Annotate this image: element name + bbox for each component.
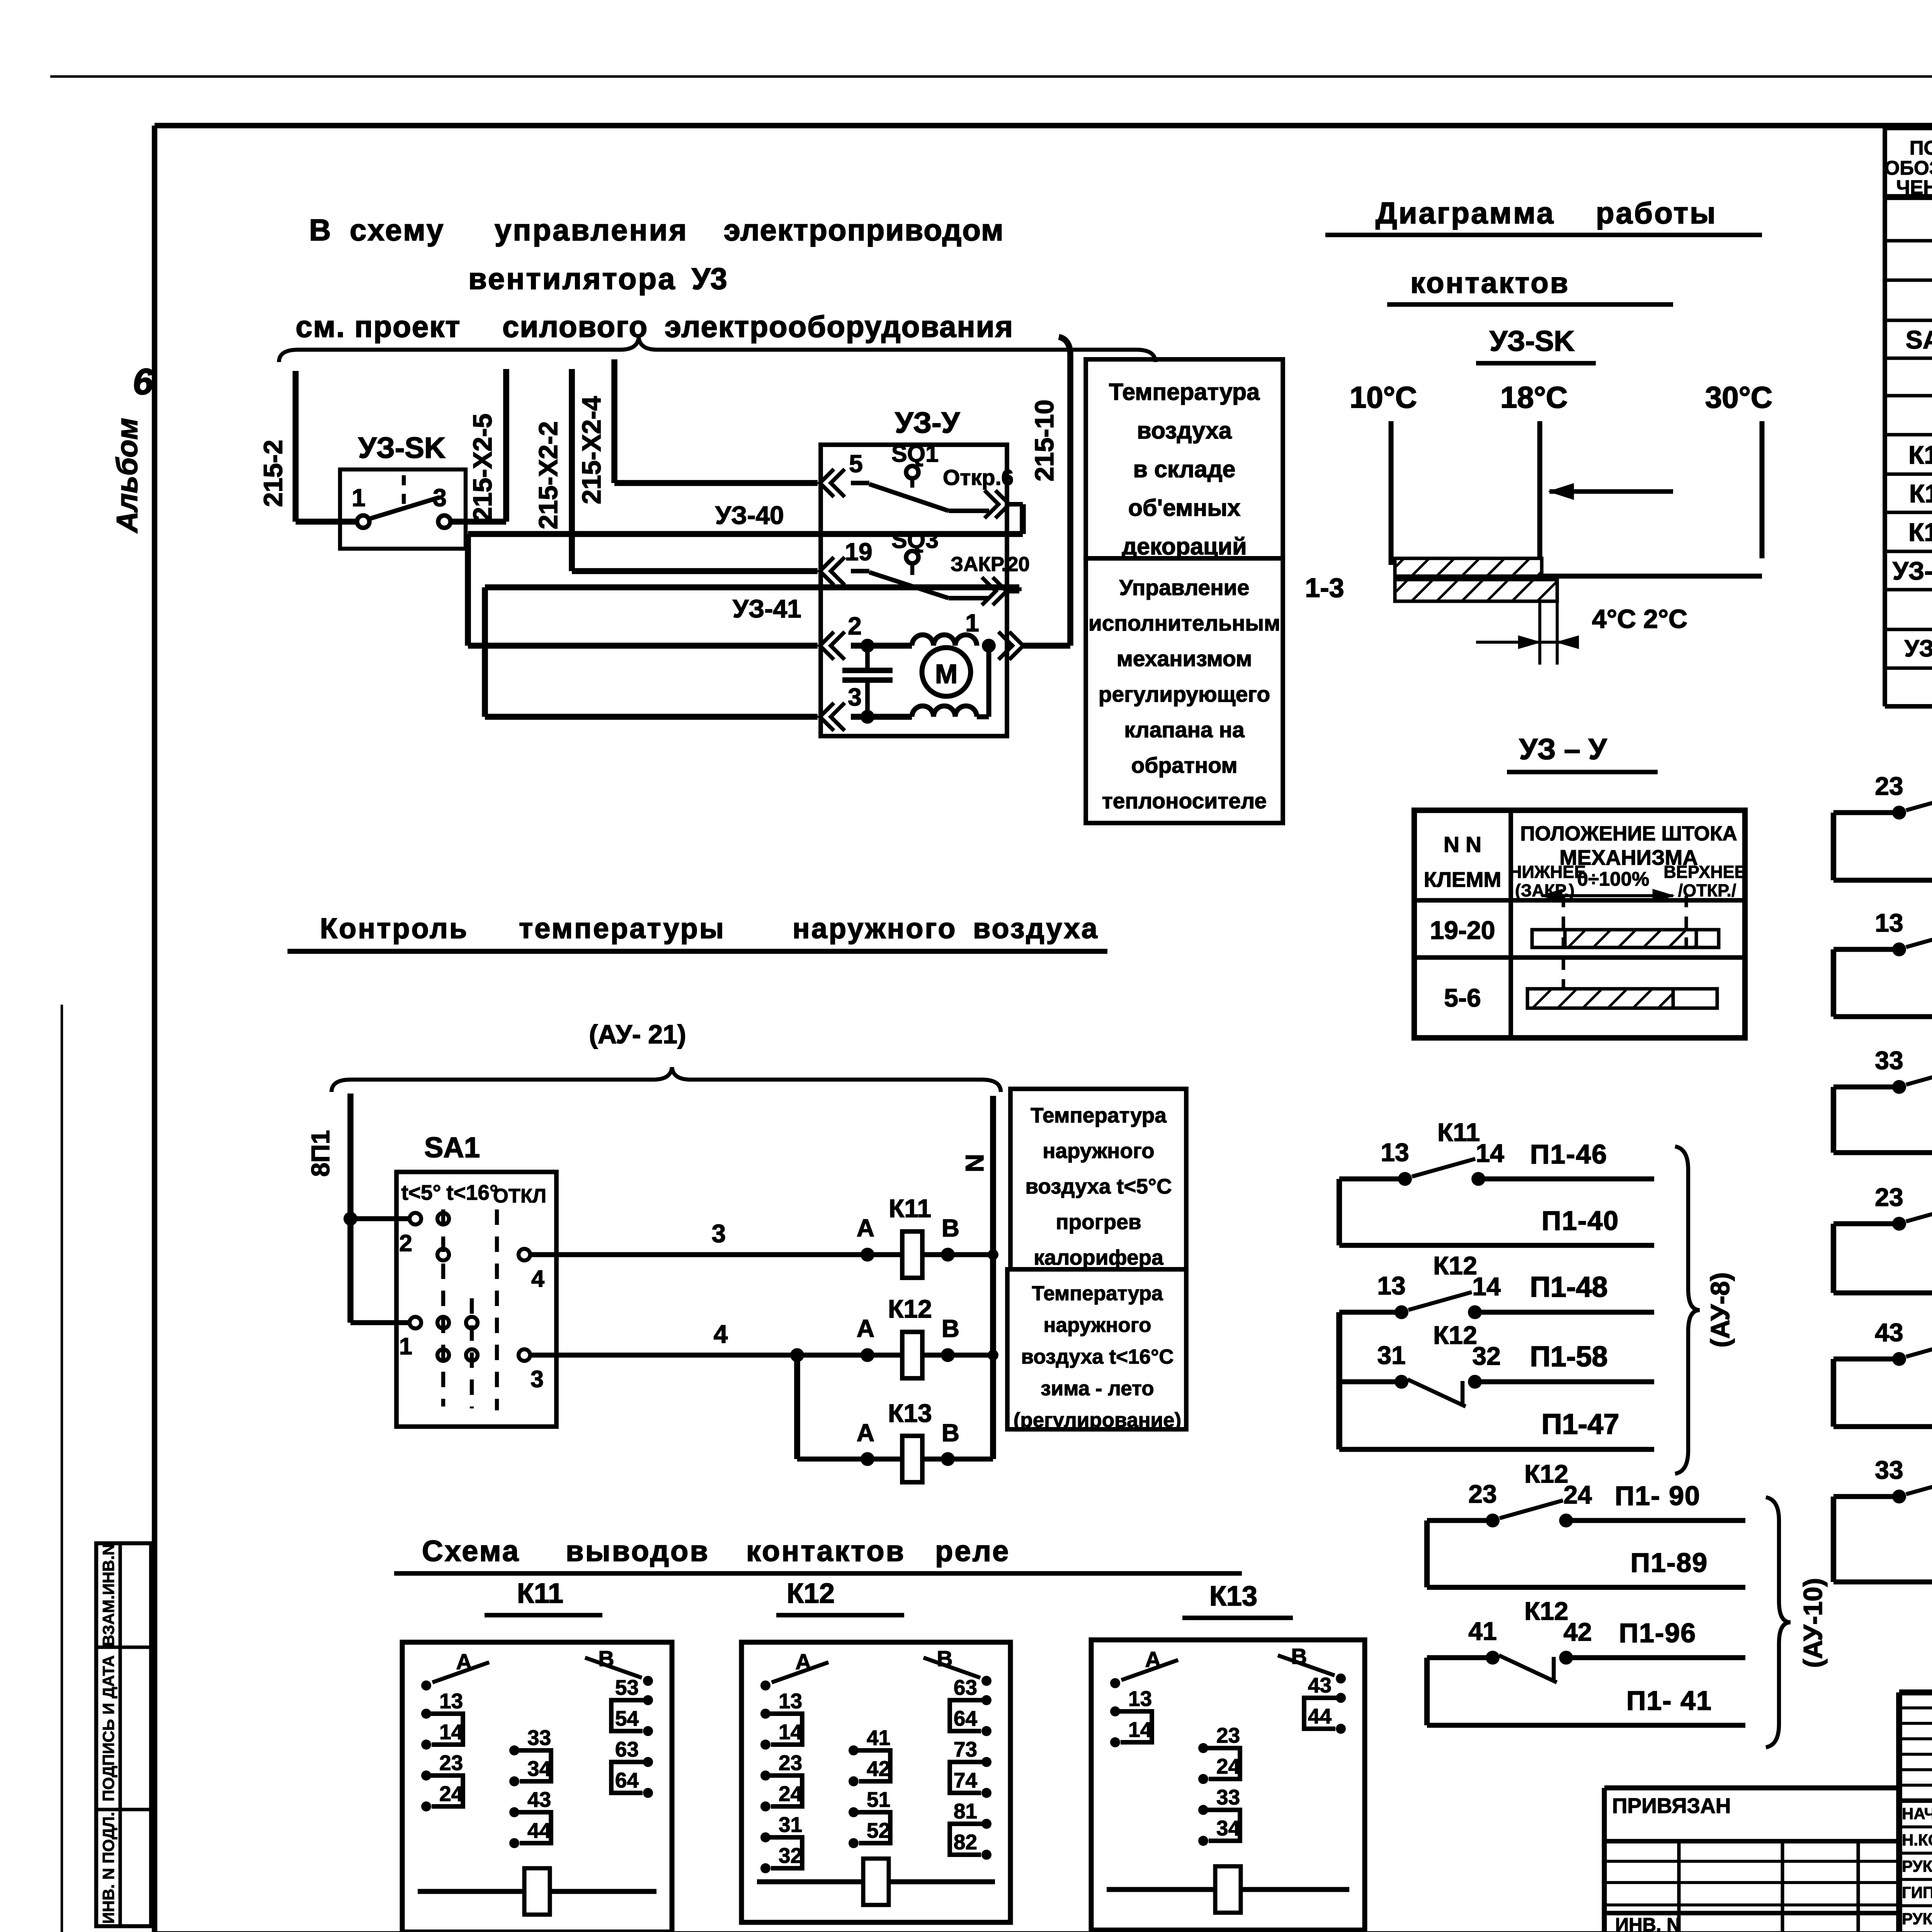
svg-text:Температура: Температура (1032, 1282, 1163, 1305)
svg-text:М: М (935, 659, 957, 689)
svg-text:ОТКЛ: ОТКЛ (493, 1185, 546, 1207)
svg-text:декораций: декораций (1122, 533, 1247, 560)
svg-text:(регулирование): (регулирование) (1014, 1409, 1181, 1432)
svg-text:Контроль: Контроль (320, 912, 468, 944)
svg-text:32: 32 (779, 1844, 802, 1867)
svg-text:(ЗАКР.): (ЗАКР.) (1515, 881, 1575, 900)
svg-text:24: 24 (439, 1782, 463, 1806)
svg-text:34: 34 (1216, 1816, 1240, 1840)
svg-text:23: 23 (1216, 1723, 1240, 1747)
svg-text:215-10: 215-10 (1030, 400, 1059, 481)
svg-text:контактов: контактов (1410, 267, 1570, 299)
svg-text:34: 34 (527, 1757, 551, 1781)
svg-text:ЗАКР.20: ЗАКР.20 (951, 553, 1030, 576)
svg-text:К12: К12 (1524, 1459, 1568, 1488)
svg-text:ЧЕНИЕ: ЧЕНИЕ (1896, 176, 1932, 198)
svg-text:t<5°: t<5° (401, 1180, 441, 1204)
svg-text:23: 23 (1875, 772, 1903, 800)
svg-text:52: 52 (867, 1818, 890, 1842)
svg-text:14: 14 (1472, 1272, 1501, 1301)
svg-text:П1-48: П1-48 (1530, 1271, 1607, 1303)
svg-text:53: 53 (615, 1675, 639, 1699)
svg-text:ОБОЗНА-: ОБОЗНА- (1884, 157, 1932, 179)
svg-text:215-X2-2: 215-X2-2 (534, 421, 563, 529)
svg-text:23: 23 (1875, 1183, 1903, 1211)
svg-text:реле: реле (935, 1535, 1010, 1568)
svg-text:32: 32 (1472, 1342, 1500, 1370)
svg-text:управления: управления (495, 213, 688, 247)
svg-text:14: 14 (1476, 1139, 1504, 1167)
svg-text:К12: К12 (1524, 1597, 1568, 1625)
svg-text:УЗ-SK: УЗ-SK (1490, 325, 1575, 357)
svg-text:31: 31 (779, 1813, 802, 1837)
svg-text:30°С: 30°С (1705, 380, 1772, 414)
svg-text:В: В (942, 1315, 959, 1342)
svg-text:П1- 90: П1- 90 (1615, 1481, 1701, 1511)
svg-text:54: 54 (615, 1706, 639, 1730)
svg-text:А: А (857, 1315, 874, 1342)
svg-text:33: 33 (1875, 1456, 1903, 1484)
svg-text:SQ1: SQ1 (891, 440, 939, 467)
svg-text:1: 1 (399, 1333, 412, 1359)
svg-text:Температура: Температура (1109, 379, 1260, 405)
svg-text:Управление: Управление (1119, 575, 1250, 600)
svg-text:SA1: SA1 (1906, 325, 1932, 354)
svg-text:3: 3 (433, 484, 447, 512)
svg-text:1-3: 1-3 (1305, 573, 1344, 603)
svg-text:ГИП: ГИП (1902, 1883, 1932, 1901)
svg-text:5-6: 5-6 (1444, 983, 1481, 1012)
svg-text:42: 42 (1563, 1617, 1592, 1646)
svg-text:13: 13 (1381, 1138, 1409, 1167)
svg-text:К12: К12 (888, 1294, 932, 1323)
svg-text:10°С: 10°С (1350, 380, 1417, 414)
svg-text:калорифера: калорифера (1034, 1245, 1163, 1269)
svg-text:Н.КОНТР.: Н.КОНТР. (1902, 1831, 1932, 1849)
svg-text:К11: К11 (1909, 479, 1932, 508)
svg-text:П1-96: П1-96 (1619, 1618, 1696, 1648)
svg-text:4: 4 (531, 1265, 544, 1292)
svg-text:63: 63 (615, 1737, 639, 1761)
svg-text:19: 19 (845, 538, 872, 566)
svg-text:215-X2-4: 215-X2-4 (577, 396, 606, 504)
svg-text:(АУ- 21): (АУ- 21) (589, 1020, 686, 1049)
svg-text:8П1: 8П1 (306, 1130, 335, 1177)
svg-text:64: 64 (954, 1706, 978, 1730)
svg-text:N N: N N (1444, 832, 1481, 857)
svg-text:А: А (857, 1419, 874, 1447)
svg-text:схему: схему (350, 213, 445, 247)
svg-text:74: 74 (954, 1768, 978, 1792)
svg-text:51: 51 (867, 1787, 890, 1811)
svg-text:13: 13 (1377, 1271, 1405, 1300)
svg-text:44: 44 (527, 1818, 551, 1842)
svg-text:УЗ-SK: УЗ-SK (1893, 556, 1932, 585)
svg-text:П1-47: П1-47 (1541, 1408, 1619, 1440)
svg-text:К11: К11 (889, 1194, 931, 1223)
svg-text:2: 2 (399, 1230, 412, 1256)
svg-text:2: 2 (848, 612, 862, 640)
svg-text:SQ3: SQ3 (891, 527, 939, 553)
svg-text:Температура: Температура (1031, 1103, 1167, 1127)
svg-text:наружного: наружного (793, 912, 957, 944)
svg-text:У3: У3 (692, 262, 727, 296)
svg-text:3: 3 (848, 683, 862, 711)
svg-text:18°С: 18°С (1500, 380, 1568, 414)
svg-text:SA1: SA1 (424, 1131, 480, 1163)
svg-text:ПОДПИСЬ И ДАТА: ПОДПИСЬ И ДАТА (99, 1655, 117, 1801)
svg-text:А: А (857, 1214, 874, 1242)
svg-text:3: 3 (531, 1366, 544, 1392)
svg-text:К12: К12 (1433, 1321, 1477, 1349)
svg-text:УЗ-40: УЗ-40 (715, 501, 784, 529)
svg-text:23: 23 (439, 1751, 463, 1775)
svg-text:24: 24 (1563, 1480, 1592, 1509)
svg-text:215-2: 215-2 (259, 440, 288, 507)
svg-text:К13: К13 (1209, 1581, 1257, 1612)
svg-text:контактов: контактов (746, 1535, 905, 1568)
svg-text:13: 13 (1875, 908, 1903, 937)
svg-text:воздуха: воздуха (973, 912, 1099, 944)
svg-text:24: 24 (1216, 1754, 1240, 1778)
svg-text:исполнительным: исполнительным (1088, 611, 1280, 636)
svg-text:УЗ-SK: УЗ-SK (358, 432, 446, 464)
svg-text:13: 13 (779, 1689, 802, 1713)
svg-text:ВЕРХНЕЕ: ВЕРХНЕЕ (1663, 862, 1746, 882)
svg-text:1: 1 (352, 484, 366, 512)
svg-text:прогрев: прогрев (1056, 1210, 1141, 1234)
svg-text:23: 23 (779, 1751, 802, 1775)
svg-text:В: В (942, 1419, 959, 1447)
svg-text:НИЖНЕЕ: НИЖНЕЕ (1509, 862, 1586, 882)
svg-text:24: 24 (779, 1782, 803, 1806)
svg-text:К13: К13 (888, 1399, 932, 1427)
svg-text:43: 43 (1875, 1318, 1903, 1347)
svg-text:19-20: 19-20 (1430, 916, 1495, 944)
svg-text:13: 13 (439, 1689, 463, 1713)
svg-text:33: 33 (1216, 1785, 1240, 1809)
svg-text:наружного: наружного (1043, 1314, 1151, 1337)
svg-text:14: 14 (1128, 1718, 1152, 1742)
svg-text:работы: работы (1596, 196, 1717, 230)
svg-text:82: 82 (954, 1830, 977, 1854)
svg-text:НАЧ.ОТД.: НАЧ.ОТД. (1902, 1804, 1932, 1823)
svg-text:П1-46: П1-46 (1530, 1139, 1607, 1169)
svg-text:42: 42 (867, 1757, 890, 1781)
svg-text:63: 63 (954, 1675, 977, 1699)
svg-text:41: 41 (1468, 1617, 1497, 1645)
svg-text:13: 13 (1128, 1687, 1152, 1711)
svg-text:(АУ-10): (АУ-10) (1798, 1578, 1828, 1668)
svg-text:ПОЗ: ПОЗ (1910, 137, 1932, 159)
svg-text:Альбом: Альбом (111, 418, 144, 534)
svg-text:К12: К12 (787, 1578, 835, 1609)
svg-text:5: 5 (849, 450, 863, 478)
svg-text:t<16°: t<16° (446, 1180, 498, 1204)
svg-text:обратном: обратном (1131, 753, 1237, 778)
svg-text:Диаграмма: Диаграмма (1376, 196, 1555, 230)
svg-text:41: 41 (867, 1726, 890, 1750)
svg-text:КЛЕММ: КЛЕММ (1424, 867, 1501, 891)
svg-text:ПРИВЯЗАН: ПРИВЯЗАН (1612, 1794, 1731, 1818)
svg-text:0÷100%: 0÷100% (1577, 868, 1650, 890)
svg-text:14: 14 (779, 1720, 803, 1744)
svg-text:81: 81 (954, 1799, 977, 1823)
svg-text:23: 23 (1468, 1480, 1497, 1508)
svg-text:43: 43 (527, 1787, 551, 1811)
svg-text:К11: К11 (517, 1578, 563, 1609)
svg-text:в складе: в складе (1133, 456, 1236, 482)
svg-text:43: 43 (1308, 1673, 1332, 1697)
svg-text:33: 33 (527, 1726, 551, 1750)
svg-text:31: 31 (1377, 1341, 1405, 1369)
svg-text:К12: К12 (1908, 440, 1932, 469)
svg-text:Откр.6: Откр.6 (943, 465, 1014, 490)
svg-text:ИНВ. N ПОДЛ.: ИНВ. N ПОДЛ. (99, 1812, 117, 1924)
svg-text:УЗ-41: УЗ-41 (733, 594, 801, 623)
svg-text:зима - лето: зима - лето (1041, 1377, 1154, 1400)
svg-text:В: В (309, 213, 331, 247)
svg-text:воздуха t<5°С: воздуха t<5°С (1025, 1174, 1172, 1198)
svg-text:см. проект: см. проект (296, 310, 461, 344)
svg-text:3: 3 (712, 1219, 726, 1248)
svg-text:механизмом: механизмом (1117, 646, 1252, 671)
svg-text:К13: К13 (1908, 518, 1932, 546)
svg-text:4°С 2°С: 4°С 2°С (1592, 604, 1687, 634)
svg-text:44: 44 (1308, 1704, 1332, 1728)
svg-text:УЗ – У: УЗ – У (1519, 733, 1607, 766)
svg-text:33: 33 (1875, 1046, 1903, 1075)
svg-text:П1-58: П1-58 (1530, 1340, 1607, 1372)
svg-text:силового: силового (502, 310, 648, 344)
svg-text:РУК.ГР.: РУК.ГР. (1902, 1910, 1932, 1928)
svg-text:электроприводом: электроприводом (724, 213, 1004, 247)
svg-text:215-X2-5: 215-X2-5 (468, 413, 497, 522)
svg-text:К12: К12 (1433, 1251, 1477, 1280)
svg-text:температуры: температуры (519, 912, 725, 944)
svg-text:П1- 41: П1- 41 (1626, 1685, 1712, 1716)
svg-text:73: 73 (954, 1737, 977, 1761)
svg-text:теплоносителе: теплоносителе (1102, 789, 1267, 813)
svg-text:ВЗАМ.ИНВ.N: ВЗАМ.ИНВ.N (99, 1544, 117, 1646)
svg-text:1: 1 (965, 609, 979, 637)
svg-text:выводов: выводов (566, 1535, 709, 1568)
svg-text:В: В (942, 1214, 959, 1242)
svg-text:ПОЛОЖЕНИЕ ШТОКА: ПОЛОЖЕНИЕ ШТОКА (1520, 822, 1737, 845)
svg-text:Схема: Схема (422, 1535, 520, 1568)
svg-text:РУК.ГР.: РУК.ГР. (1902, 1857, 1932, 1875)
svg-text:14: 14 (439, 1720, 463, 1744)
svg-text:П1-40: П1-40 (1542, 1206, 1619, 1236)
svg-text:электрооборудования: электрооборудования (665, 310, 1014, 344)
svg-text:воздуха: воздуха (1137, 417, 1232, 444)
svg-text:УЗ-У: УЗ-У (895, 406, 960, 439)
svg-text:(АУ-8): (АУ-8) (1706, 1272, 1735, 1348)
svg-text:ИНВ. N: ИНВ. N (1615, 1915, 1680, 1932)
svg-text:УЗ-У: УЗ-У (1905, 635, 1932, 662)
svg-text:4: 4 (714, 1320, 728, 1348)
svg-text:6: 6 (133, 361, 154, 402)
svg-text:наружного: наружного (1043, 1139, 1155, 1163)
svg-text:N: N (960, 1154, 989, 1172)
svg-text:64: 64 (615, 1768, 639, 1792)
svg-text:клапана на: клапана на (1124, 718, 1245, 742)
svg-text:регулирующего: регулирующего (1099, 682, 1270, 707)
svg-text:вентилятора: вентилятора (468, 262, 676, 296)
svg-text:П1-89: П1-89 (1631, 1548, 1708, 1578)
svg-text:воздуха t<16°С: воздуха t<16°С (1021, 1345, 1173, 1368)
svg-text:об'емных: об'емных (1128, 495, 1241, 521)
svg-text:К11: К11 (1437, 1118, 1480, 1146)
